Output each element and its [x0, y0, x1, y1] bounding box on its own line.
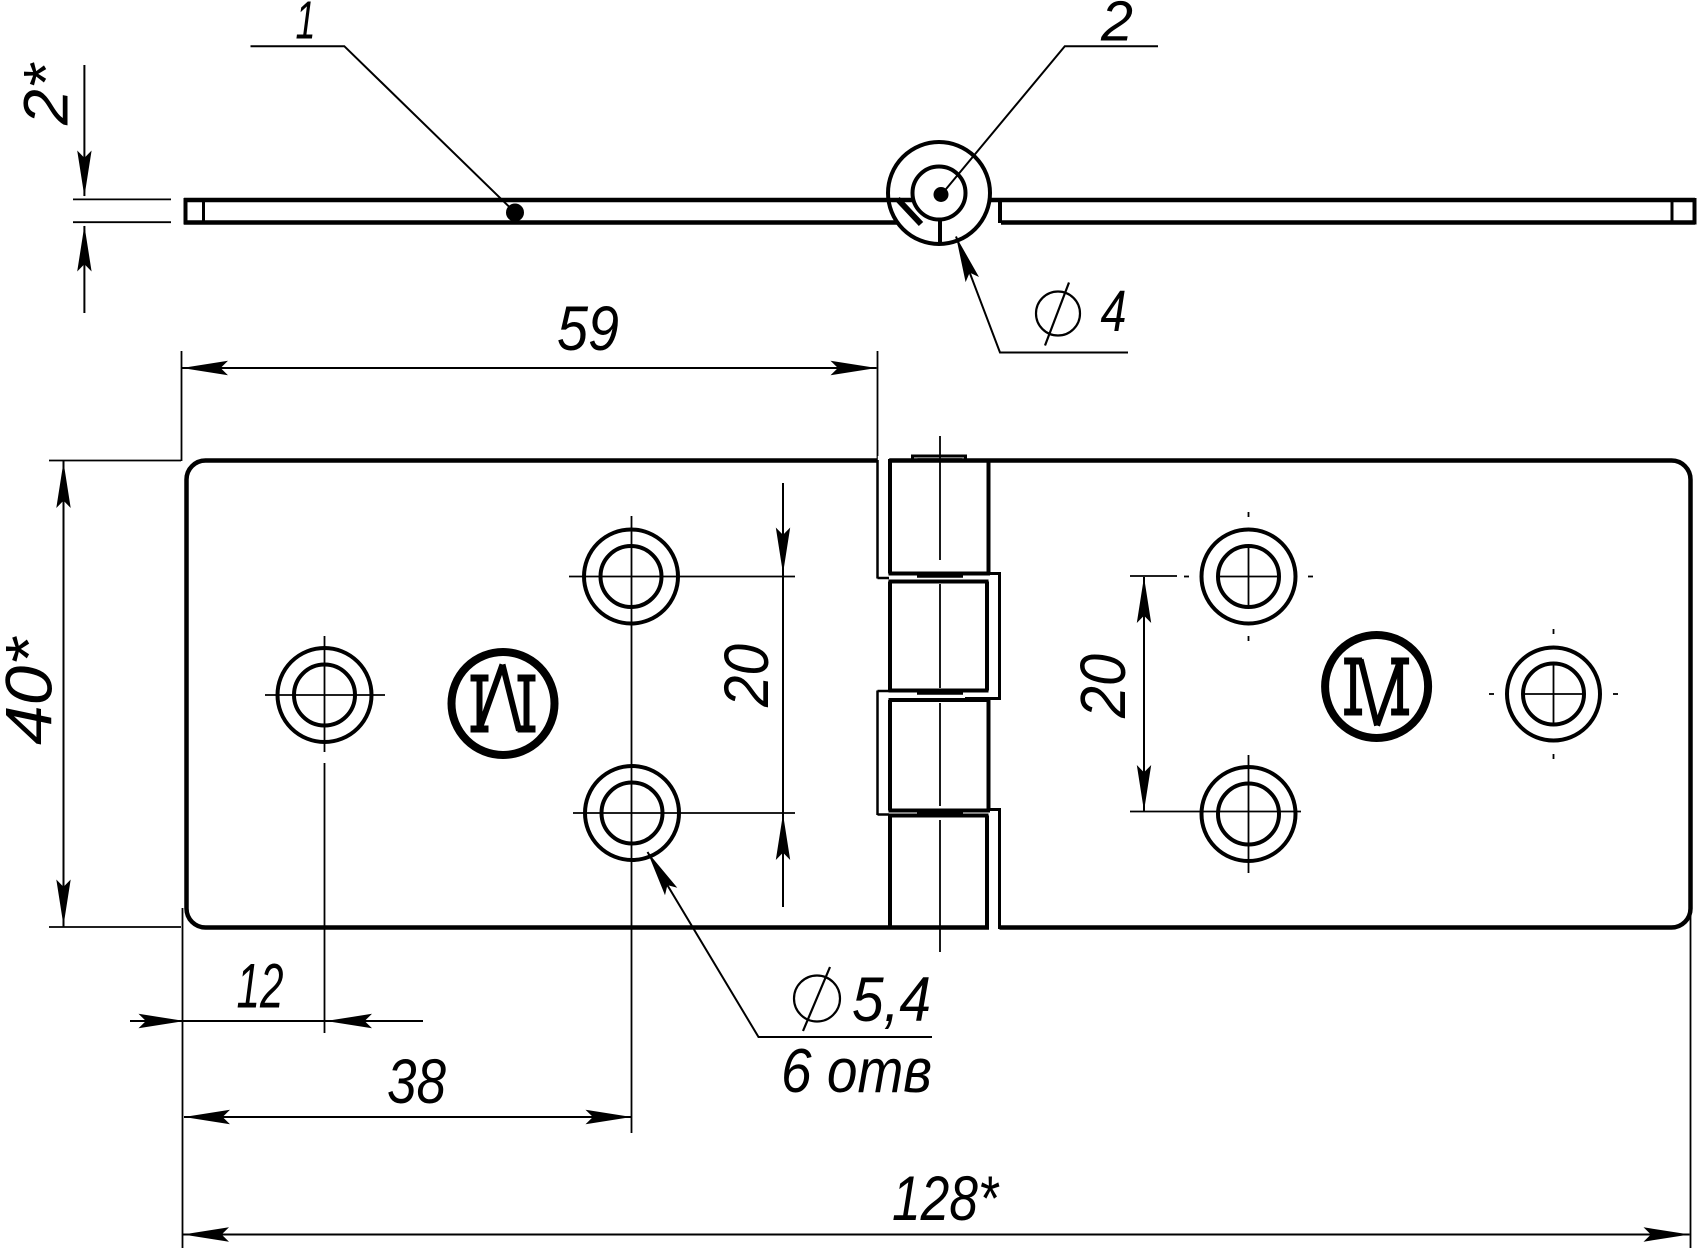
hole C (left plate lower) — [573, 766, 795, 860]
hole B (left plate upper) — [569, 516, 795, 1133]
d4 diameter symbol — [1036, 283, 1080, 346]
gap in top edge at knuckle — [878, 456, 889, 465]
hinge knuckle strip (plan) — [878, 456, 1000, 929]
leader 2 — [942, 46, 1159, 194]
knuckle inner circle — [913, 167, 966, 220]
knuckle segment 2 — [889, 580, 989, 584]
left curl diagonal seam — [898, 199, 922, 224]
leader 1 — [251, 46, 515, 212]
svg-text:38: 38 — [387, 1047, 446, 1117]
pin tick gap1 — [917, 575, 963, 578]
extension lines for 2* — [73, 198, 171, 200]
logo M right — [1325, 635, 1428, 738]
left leaf bottom edge — [184, 220, 897, 225]
right bend line — [1671, 200, 1674, 223]
svg-text:128*: 128* — [892, 1164, 1000, 1234]
pin centerline — [939, 436, 941, 952]
plate outline — [187, 461, 1691, 928]
leader d5.4 — [648, 852, 933, 1037]
pin tick gap2 — [917, 692, 963, 695]
hole A (left) — [265, 636, 385, 1033]
right leaf bottom edge — [1001, 220, 1695, 225]
gap in bottom edge right of knuckle — [989, 923, 1000, 932]
dimension 59 — [182, 367, 877, 369]
knuckle segment 3 — [889, 698, 991, 702]
svg-text:4: 4 — [1101, 279, 1127, 344]
pin top bump — [913, 456, 966, 460]
hole E (right plate lower) — [1130, 755, 1301, 873]
svg-text:6 отв: 6 отв — [781, 1037, 932, 1106]
knuckle segment 4 — [889, 814, 989, 818]
svg-text:2: 2 — [1100, 0, 1133, 54]
left bend line — [202, 200, 205, 223]
knuckle bottom vertical line — [938, 218, 942, 245]
dimension 2* — [83, 65, 85, 313]
dimension d4 leader — [956, 237, 1128, 353]
right leaf top edge — [989, 198, 1695, 203]
logo M left (rotated 180) — [452, 652, 555, 755]
left leaf edge along knuckle seg1 — [876, 460, 879, 579]
hole F (right plate right) — [1489, 629, 1618, 759]
dimension 20 left (rotated label) — [782, 483, 784, 907]
left leaf edge along knuckle seg3 — [876, 691, 879, 816]
leader 1 dot — [506, 204, 524, 222]
dimension 20 right (rotated label) — [1130, 576, 1177, 811]
pin tick gap3 — [917, 811, 963, 814]
knuckle outer circle — [888, 142, 990, 244]
dimension 128* — [183, 1234, 1690, 1236]
pin center dot — [934, 187, 949, 202]
knuckle segment 1 — [888, 459, 892, 574]
right end cap — [1693, 198, 1697, 225]
hole D (right plate upper) — [1184, 512, 1313, 641]
dimension 12 — [130, 1020, 423, 1022]
svg-text:2*: 2* — [12, 61, 82, 126]
extension lines bottom — [183, 908, 1691, 1248]
svg-text:20: 20 — [712, 644, 782, 708]
d5.4 diameter symbol — [794, 967, 840, 1031]
svg-text:40*: 40* — [0, 636, 66, 745]
right curl seam — [998, 200, 1002, 223]
left end cap — [184, 198, 188, 225]
svg-text:20: 20 — [1067, 654, 1139, 719]
svg-text:12: 12 — [237, 952, 284, 1022]
dimension 40* — [63, 461, 65, 927]
svg-text:5,4: 5,4 — [852, 965, 931, 1035]
dimension 38 — [184, 1116, 632, 1118]
svg-text:59: 59 — [557, 294, 619, 364]
left leaf top edge — [184, 198, 913, 203]
svg-text:1: 1 — [296, 0, 316, 51]
